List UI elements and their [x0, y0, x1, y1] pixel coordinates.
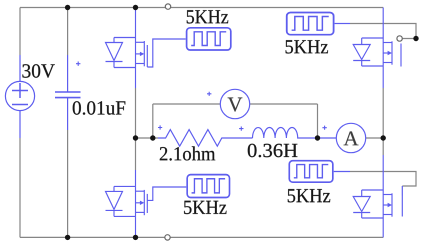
junction dot: bottom bus / Q3 source	[133, 235, 138, 240]
resistor R1 2.1ohm	[158, 130, 253, 147]
wire: voltmeter right tap vertical	[317, 104, 319, 138]
junction dot: right midpoint node A	[381, 135, 386, 140]
inductor L1 polarity mark	[239, 127, 243, 131]
capacitor C1	[55, 55, 81, 130]
wire: bottom bus	[20, 236, 383, 238]
label 5KHz (P3)	[184, 201, 226, 214]
transistor Q2 (top-right MOSFET with anti-parallel diode)	[353, 8, 401, 89]
ammeter polarity mark	[322, 126, 326, 130]
DC source V1 30V	[5, 55, 34, 138]
port circle: bottom bus measurement tap	[165, 235, 170, 240]
wire: voltmeter right horizontal	[250, 103, 318, 105]
junction dot: top bus / Q1 drain	[133, 5, 138, 10]
wire: Q1 gate to pulse gen P1	[147, 39, 185, 67]
wire: left rail upper (source to top bus)	[19, 8, 21, 56]
junction dot: top bus / capacitor	[65, 5, 70, 10]
wire: top bus from source to right bridge leg	[20, 7, 383, 9]
junction dot: voltmeter right tap	[315, 135, 320, 140]
junction dot: voltmeter left tap	[150, 135, 155, 140]
wire: left rail lower (source to bottom bus)	[19, 138, 21, 237]
wire: left bridge midpoint to Q3 drain (gray)	[135, 138, 137, 170]
pulse generator P2	[287, 13, 334, 35]
pulse generator P3	[187, 175, 229, 198]
ammeter A	[336, 123, 365, 152]
wire: pulse gen P2 to Q2 gate (routed right)	[350, 24, 416, 39]
junction dot: bottom bus / capacitor	[65, 235, 70, 240]
pulse generator P1	[187, 28, 231, 50]
label 0.36H	[248, 144, 298, 158]
label 2.1ohm	[160, 146, 215, 160]
wire: ammeter to right rail segment	[366, 137, 383, 139]
wire: voltmeter left horizontal	[153, 103, 220, 105]
capacitor C1 polarity mark	[76, 62, 80, 66]
transistor Q3 (bottom-left MOSFET with anti-parallel diode)	[106, 170, 148, 237]
voltmeter polarity mark	[207, 92, 211, 96]
resistor R1 polarity mark	[158, 125, 162, 129]
wire: load row left segment	[136, 137, 159, 139]
voltmeter V	[220, 89, 249, 118]
transistor Q4 (bottom-right MOSFET with anti-parallel diode)	[353, 155, 402, 237]
wire: capacitor bottom lead (gray part)	[67, 130, 69, 237]
wire: pulse gen P4 to Q4 gate (routed right)	[350, 172, 416, 187]
inductor L1 0.36H	[253, 127, 337, 138]
wire: Q4 gate drop	[401, 186, 403, 196]
port circle: top bus measurement tap	[165, 4, 170, 9]
junction dot: left midpoint node	[133, 135, 138, 140]
label 30V	[22, 64, 54, 78]
pulse generator P4	[289, 161, 333, 182]
wire: left bridge midpoint rail (Q1 source to node, gray)	[135, 88, 137, 138]
label 0.01uF	[73, 101, 126, 115]
wire: pulse gen P4 output stub	[334, 171, 350, 173]
junction dot: Q2 gate wire corner	[413, 36, 418, 41]
label 5KHz (P1)	[187, 10, 228, 23]
label 5KHz (P4)	[288, 189, 330, 202]
wire: capacitor top lead (gray part)	[67, 8, 69, 56]
wire: pulse gen P2 output stub	[335, 23, 350, 25]
wire: right bridge midpoint to Q4 drain (gray)	[382, 138, 384, 155]
wire: voltmeter left tap vertical	[152, 104, 154, 138]
wire: right bridge midpoint rail (Q2 source to node A, gray)	[382, 88, 384, 138]
label 5KHz (P2)	[286, 40, 328, 53]
Q2 gate port circle	[397, 36, 402, 41]
transistor Q1 (top-left MOSFET with anti-parallel diode)	[106, 8, 148, 89]
wire: Q3 gate to pulse gen P3	[147, 187, 186, 200]
